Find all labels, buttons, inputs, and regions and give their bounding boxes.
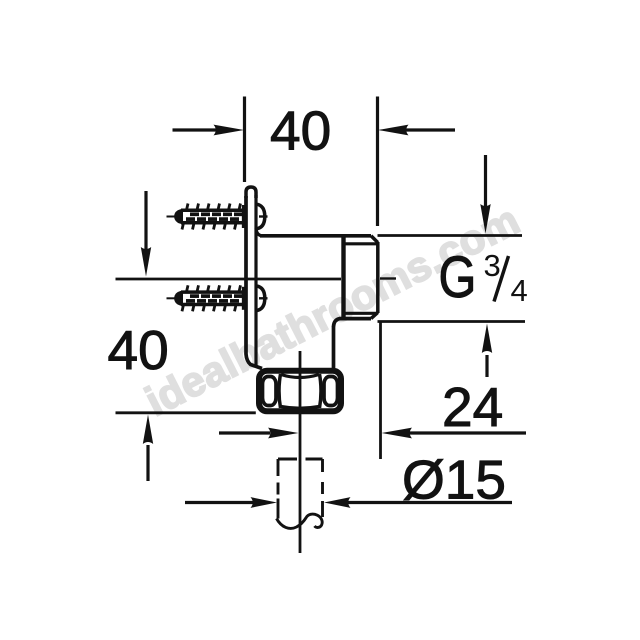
thread right edge [376,242,380,313]
svg-text:40: 40 [108,319,169,381]
body top edge [260,234,371,238]
dimension 24: arrowhead left-pointing [382,428,413,439]
outlet axis line (left 40 top reference) [116,278,342,281]
hex nut center facet top arc [281,375,319,378]
thread chamfer bottom-right [371,313,378,319]
dimension 24: dimension line left segment [219,431,270,434]
watermark idealbathrooms.com [138,196,527,425]
dimension 40 top: arrowhead left-pointing [378,125,409,136]
pipe dashed right edge [321,459,324,472]
svg-text:Ø15: Ø15 [402,449,506,511]
dimension 24: arrowhead right-pointing at centerline [268,428,299,439]
pipe dashed left edge [277,459,280,476]
thread chamfer top-right [371,236,378,243]
dimension 24: dimension line right segment [409,431,526,434]
fillet body to drop section [334,319,341,327]
pipe dashed top edge [278,458,297,461]
dimension diameter 15: dimension line left segment [185,501,253,504]
G3/4 bottom reference line [378,320,526,323]
dimension diameter 15: arrowhead right-pointing [251,497,278,508]
screw 1 (upper) [167,204,268,230]
dimension diameter 15: arrowhead left-pointing [324,497,351,508]
outlet axis tick right of thread [380,277,396,279]
thread crest line bottom [345,312,377,315]
dimension 40 left: lower arrowhead up-pointing [143,415,153,445]
svg-text:4: 4 [511,273,528,308]
hex nut left divider [279,374,281,408]
G3/4 lower arrowhead up-pointing [482,324,492,354]
hex nut right divider [320,374,322,408]
dimension 40 top: arrowhead right-pointing [214,125,245,136]
dimension 40 left: upper arrowhead down-pointing [141,247,151,277]
svg-text:40: 40 [270,100,331,162]
wall flange right edge [254,195,257,367]
fillet flange to body top [256,229,263,236]
dimension 40 top: extension line left [243,97,246,183]
G3/4 top reference line [378,234,523,237]
drop section right edge [332,326,336,368]
G3/4 thread label [439,246,528,310]
svg-text:24: 24 [442,376,503,438]
hex nut outer [259,371,341,412]
pipe break wavy line [277,514,323,528]
G3/4 upper arrowhead down-pointing [480,204,490,234]
vertical centerline of outlet [299,351,302,553]
dimension 40 top: dimension line left segment [173,128,217,131]
thread crest line top [345,242,377,245]
G3/4 upper arrow shaft [484,155,487,207]
dimension 40 left: lower arrow shaft [146,445,149,481]
G3/4 lower arrow shaft [485,355,488,377]
wall flange left edge [246,196,262,369]
dimension 40 left: bottom reference line [116,411,256,414]
svg-text:G: G [439,246,477,310]
dimension 40 left: upper arrow shaft [144,191,147,250]
thread shoulder [341,236,345,318]
hex nut right facet oval [324,377,338,406]
hex nut left facet oval [263,377,277,406]
dimension diameter 15: dimension line right segment [348,501,512,504]
hex nut center facet bottom arc [281,407,319,409]
body bottom edge [339,317,371,321]
wall flange rounded top cap [246,187,256,198]
svg-text:3: 3 [484,248,501,283]
dimension 40 top: dimension line right segment [406,128,455,131]
screw 2 (lower) [167,285,268,311]
dimension 24: right extension line [379,322,382,459]
dimension 40 top: extension line right [376,97,379,227]
